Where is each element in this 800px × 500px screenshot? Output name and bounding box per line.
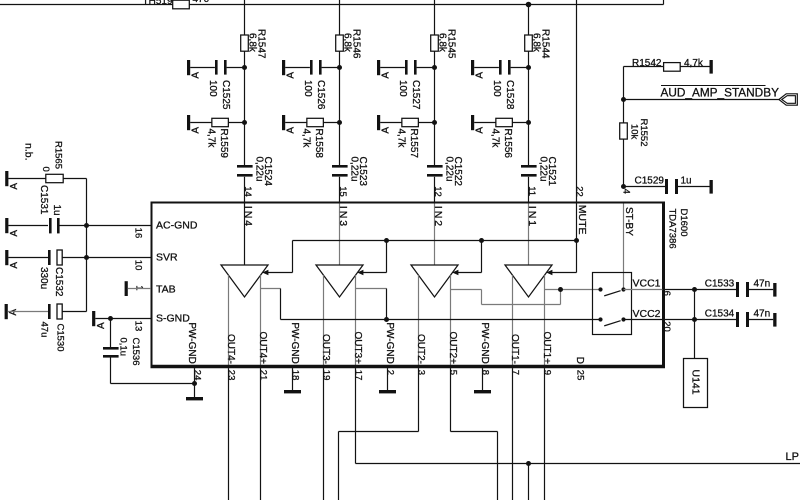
svg-text:IN2: IN2 bbox=[432, 206, 444, 228]
svg-text:100: 100 bbox=[397, 80, 408, 97]
svg-text:A: A bbox=[9, 230, 20, 237]
svg-text:R1559: R1559 bbox=[218, 129, 229, 159]
svg-text:R1552: R1552 bbox=[638, 119, 649, 147]
svg-text:VCC2: VCC2 bbox=[632, 308, 660, 320]
svg-text:C1534: C1534 bbox=[705, 309, 735, 320]
svg-text:IN3: IN3 bbox=[337, 206, 349, 228]
svg-text:A: A bbox=[475, 72, 486, 79]
svg-text:MUTE: MUTE bbox=[576, 205, 588, 235]
svg-text:TH519: TH519 bbox=[143, 0, 173, 7]
svg-text:D: D bbox=[574, 357, 585, 364]
svg-text:PW-GND: PW-GND bbox=[384, 322, 395, 363]
svg-text:18: 18 bbox=[289, 370, 300, 381]
svg-text:0,1u: 0,1u bbox=[118, 338, 129, 357]
svg-text:7: 7 bbox=[509, 370, 520, 375]
svg-text:C1523: C1523 bbox=[357, 157, 368, 187]
svg-text:47n: 47n bbox=[754, 309, 771, 320]
svg-text:D1600: D1600 bbox=[678, 209, 689, 237]
svg-text:C1528: C1528 bbox=[504, 80, 515, 110]
svg-text:AC-GND: AC-GND bbox=[156, 220, 198, 232]
svg-text:22: 22 bbox=[574, 186, 585, 197]
svg-text:C1525: C1525 bbox=[220, 80, 231, 110]
svg-text:4,7k: 4,7k bbox=[684, 58, 704, 69]
svg-text:IN4: IN4 bbox=[242, 206, 254, 228]
svg-text:R1557: R1557 bbox=[408, 129, 419, 159]
svg-text:330u: 330u bbox=[38, 267, 49, 289]
svg-text:LP: LP bbox=[786, 451, 799, 463]
svg-text:R1542: R1542 bbox=[632, 58, 662, 69]
svg-text:470: 470 bbox=[193, 0, 210, 5]
svg-text:1u: 1u bbox=[51, 205, 62, 216]
svg-text:C1521: C1521 bbox=[546, 157, 557, 187]
svg-text:8: 8 bbox=[479, 370, 490, 375]
svg-text:0: 0 bbox=[40, 167, 51, 172]
svg-text:R1545: R1545 bbox=[445, 29, 456, 59]
svg-text:10: 10 bbox=[132, 260, 143, 271]
svg-text:C1530: C1530 bbox=[54, 324, 65, 352]
svg-text:20: 20 bbox=[661, 321, 672, 332]
svg-text:C1527: C1527 bbox=[410, 80, 421, 110]
svg-text:TDA7386: TDA7386 bbox=[667, 209, 678, 249]
svg-text:VCC1: VCC1 bbox=[632, 277, 660, 289]
svg-text:PW-GND: PW-GND bbox=[186, 322, 197, 363]
svg-text:R1547: R1547 bbox=[255, 29, 266, 59]
svg-text:OUT2-: OUT2- bbox=[415, 334, 426, 364]
svg-text:1u: 1u bbox=[681, 176, 692, 187]
svg-text:C1522: C1522 bbox=[452, 157, 463, 187]
svg-text:C1529: C1529 bbox=[635, 176, 665, 187]
svg-text:15: 15 bbox=[337, 186, 348, 197]
svg-text:A: A bbox=[381, 127, 392, 134]
svg-text:10k: 10k bbox=[628, 124, 639, 140]
svg-text:16: 16 bbox=[132, 228, 143, 239]
svg-text:R1565: R1565 bbox=[53, 141, 64, 169]
svg-text:17: 17 bbox=[352, 370, 363, 381]
svg-text:C1536: C1536 bbox=[130, 338, 141, 366]
svg-text:OUT3-: OUT3- bbox=[320, 334, 331, 364]
svg-text:OUT4-: OUT4- bbox=[225, 334, 236, 364]
svg-text:12: 12 bbox=[432, 186, 443, 197]
svg-text:24: 24 bbox=[191, 370, 202, 381]
svg-text:A: A bbox=[286, 72, 297, 79]
svg-text:2: 2 bbox=[384, 370, 395, 375]
svg-text:OUT4+: OUT4+ bbox=[257, 331, 268, 364]
svg-text:ST-BY: ST-BY bbox=[623, 207, 634, 236]
svg-text:3: 3 bbox=[415, 370, 426, 375]
svg-text:TAB: TAB bbox=[156, 283, 176, 295]
svg-text:C1532: C1532 bbox=[53, 267, 64, 297]
svg-text:A: A bbox=[9, 183, 20, 190]
svg-text:4,7k: 4,7k bbox=[205, 129, 216, 149]
svg-text:19: 19 bbox=[320, 370, 331, 381]
svg-text:SVR: SVR bbox=[156, 252, 178, 264]
svg-text:A: A bbox=[191, 72, 202, 79]
svg-text:S-GND: S-GND bbox=[156, 313, 190, 325]
svg-text:R1544: R1544 bbox=[539, 29, 550, 59]
svg-text:5: 5 bbox=[447, 370, 458, 375]
svg-text:A: A bbox=[475, 127, 486, 134]
svg-text:OUT3+: OUT3+ bbox=[352, 331, 363, 364]
svg-text:100: 100 bbox=[207, 80, 218, 97]
svg-text:A: A bbox=[9, 262, 20, 269]
svg-text:C1526: C1526 bbox=[315, 80, 326, 110]
svg-text:C1533: C1533 bbox=[705, 279, 735, 290]
svg-text:R1546: R1546 bbox=[350, 29, 361, 59]
svg-text:9: 9 bbox=[541, 370, 552, 375]
svg-text:100: 100 bbox=[491, 80, 502, 97]
svg-text:OUT2+: OUT2+ bbox=[447, 331, 458, 364]
svg-text:4,7k: 4,7k bbox=[395, 129, 406, 149]
svg-text:47u: 47u bbox=[39, 322, 50, 338]
svg-text:R1556: R1556 bbox=[502, 129, 513, 159]
svg-text:PW-GND: PW-GND bbox=[479, 322, 490, 363]
svg-text:OUT1-: OUT1- bbox=[509, 334, 520, 364]
svg-text:14: 14 bbox=[242, 186, 253, 197]
svg-text:4,7k: 4,7k bbox=[489, 129, 500, 149]
svg-text:n.b.: n.b. bbox=[23, 143, 35, 161]
svg-text:A: A bbox=[381, 72, 392, 79]
svg-text:A: A bbox=[286, 127, 297, 134]
svg-text:13: 13 bbox=[132, 321, 143, 332]
svg-text:C1531: C1531 bbox=[38, 185, 49, 215]
svg-text:R1558: R1558 bbox=[313, 129, 324, 159]
svg-text:4,7k: 4,7k bbox=[300, 129, 311, 149]
svg-text:6: 6 bbox=[661, 291, 672, 296]
svg-text:AUD_AMP_STANDBY: AUD_AMP_STANDBY bbox=[661, 85, 780, 99]
svg-text:C1524: C1524 bbox=[262, 157, 273, 187]
svg-text:OUT1+: OUT1+ bbox=[541, 331, 552, 364]
svg-text:IN1: IN1 bbox=[526, 206, 538, 228]
svg-text:21: 21 bbox=[257, 370, 268, 381]
svg-text:23: 23 bbox=[225, 370, 236, 381]
svg-text:U141: U141 bbox=[690, 370, 702, 395]
svg-text:A: A bbox=[96, 322, 107, 329]
svg-text:47n: 47n bbox=[754, 279, 771, 290]
svg-text:11: 11 bbox=[526, 186, 537, 196]
svg-text:A: A bbox=[191, 127, 202, 134]
svg-text:4: 4 bbox=[620, 189, 631, 194]
svg-text:100: 100 bbox=[302, 80, 313, 97]
svg-text:25: 25 bbox=[574, 370, 585, 381]
svg-text:PW-GND: PW-GND bbox=[289, 322, 300, 363]
